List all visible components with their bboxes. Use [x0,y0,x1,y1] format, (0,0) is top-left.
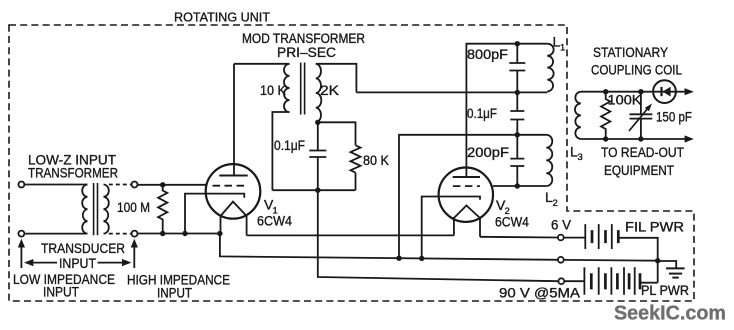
V1 grid (dashed) [213,185,247,187]
V1 plate bar [219,175,247,177]
svg-text:PRI–SEC: PRI–SEC [277,45,336,60]
capacitor C3 0.1uF [510,93,524,136]
svg-text:6CW4: 6CW4 [495,214,529,230]
svg-text:200pF: 200pF [467,145,509,160]
node L1 bottom junction [515,90,520,95]
arrow to readout top [685,88,694,95]
node B+ junction [315,188,320,193]
wire 80K bottom [355,173,357,191]
battery B1 FIL plates short [592,230,618,243]
capacitor C4 200pF [510,135,524,186]
svg-text:1: 1 [560,43,565,54]
battery B1 FIL plates long [585,224,612,249]
wire B+ node tie [272,189,355,191]
V2 heater [454,206,480,219]
arrow low impedance input [20,246,22,268]
transformer T1 secondary winding [104,185,109,234]
svg-text:100K: 100K [608,93,642,108]
svg-text:COUPLING COIL: COUPLING COIL [591,63,682,78]
transformer T1 primary winding [82,185,87,234]
wire ground rail [220,234,558,260]
battery B2 PL plates short [591,273,640,289]
transformer T1 core [94,183,98,235]
wire tank rail 2 [399,135,546,258]
V2 heater left lead [453,217,455,236]
wire 6V rail [480,236,558,239]
V2 cathode and lead [422,197,480,259]
svg-text:6 V: 6 V [551,217,572,233]
node 150pF bottom [638,136,643,141]
V2 heater right lead [479,217,481,237]
svg-text:2K: 2K [320,82,340,98]
svg-text:SeekIC.com: SeekIC.com [614,302,726,325]
wire dashed link top [109,184,132,186]
node 2K bottom [315,120,320,125]
wire input top [24,184,87,186]
inductor L1 [547,44,553,92]
svg-text:TRANSFORMER: TRANSFORMER [28,165,118,181]
svg-text:INPUT: INPUT [43,284,79,300]
arrow to readout bottom [685,135,694,142]
svg-text:ROTATING UNIT: ROTATING UNIT [174,10,270,25]
resistor R2 80K [351,145,361,172]
wire 2K bottom to 80K top [318,122,356,145]
terminal common [558,257,564,263]
terminal high impedance bottom [132,231,138,237]
wire heater rail [247,234,454,236]
node 100K top [603,89,608,94]
wire coupling top rail [581,91,686,93]
svg-text:90 V @5MA: 90 V @5MA [499,285,581,301]
svg-text:0.1μF: 0.1μF [274,138,305,153]
node gnd riser junction [396,256,401,261]
svg-text:MOD TRANSFORMER: MOD TRANSFORMER [242,31,365,46]
transformer T2 primary winding 10K [284,64,290,112]
svg-text:6CW4: 6CW4 [257,213,292,229]
node cathode tie [182,231,187,236]
svg-text:2: 2 [553,198,558,209]
tube V2 envelope [439,168,493,222]
V1 heater right lead [246,215,248,235]
wire 6V to battery [564,237,586,239]
svg-text:100 M: 100 M [117,199,150,215]
V1 plate lead [233,64,235,176]
node 200pF bottom [515,183,520,188]
node 100K bottom [603,136,608,141]
resistor R1 100M [158,185,167,234]
arrow input right [98,262,123,264]
svg-text:INPUT: INPUT [157,285,192,301]
svg-text:0.1μF: 0.1μF [467,106,497,121]
V2 grid (dashed) [453,185,480,187]
node 100M bottom [160,231,165,236]
node 150pF top [638,89,643,94]
wire ground rail input [138,233,220,235]
node grid rail junction [160,182,165,187]
wire common rail [564,259,658,262]
wire V1 plate to primary [234,63,290,65]
transformer T2 secondary winding 2K [316,64,322,123]
svg-text:INPUT: INPUT [59,255,96,271]
svg-text:STATIONARY: STATIONARY [593,45,668,60]
wire 90V to battery [564,280,584,282]
node cathode riser junction [419,256,424,261]
V1 cathode and lead [185,194,244,234]
terminal low-Z input bottom [18,231,24,237]
ground symbol [658,261,677,268]
capacitor C5 150pF variable [630,92,653,139]
wire V2 plate rail [466,44,547,177]
wire tank mid rail [356,91,547,93]
diode CR1 symbol [660,87,662,96]
svg-text:80 K: 80 K [363,152,390,168]
wire PL return [640,282,658,284]
inductor L3 [575,92,581,139]
terminal high impedance top [132,182,138,188]
svg-text:PL PWR: PL PWR [641,283,689,298]
tube V1 envelope [206,164,261,219]
V1 heater left lead [220,215,222,234]
diode CR1 envelope [653,80,676,103]
terminal 90V [558,278,564,284]
transformer T2 core [301,63,305,115]
V2 plate bar [453,176,480,178]
svg-text:FIL PWR: FIL PWR [625,220,684,235]
svg-text:800pF: 800pF [467,47,508,62]
wire coupling bottom rail [581,138,686,140]
node heater tie [217,231,222,236]
wire secondary top [316,64,357,93]
arrow variable cap [629,108,649,132]
wire V2 grid rail [493,185,546,187]
node 800pF top [515,41,520,46]
svg-text:10 K: 10 K [260,82,287,98]
rotating unit dashed boundary [9,25,694,301]
wire grid rail V1 [138,184,207,186]
resistor R3 100K [601,92,610,139]
battery B2 PL plates long [584,267,634,294]
arrow input left [34,262,58,264]
capacitor C2 800pF [509,44,525,93]
svg-text:TO READ-OUT: TO READ-OUT [601,145,684,160]
wire dashed link bottom [109,233,132,235]
wire FIL return [618,238,657,283]
svg-text:TRANSDUCER: TRANSDUCER [41,240,125,256]
V1 heater [221,202,247,216]
inductor L2 [546,135,552,186]
wire 10K bottom to B+ node [272,112,289,190]
wire B+ to 90V terminal [318,190,559,281]
svg-text:150 pF: 150 pF [656,110,692,125]
terminal 6V [558,235,564,241]
arrow high impedance input [133,246,135,268]
terminal low-Z input top [18,182,24,188]
node 200pF top [515,132,520,137]
svg-text:3: 3 [578,152,583,163]
capacitor C1 0.1uF [309,122,326,190]
node power junction [655,258,660,263]
svg-text:EQUIPMENT: EQUIPMENT [604,163,674,178]
wire input bottom [24,233,87,235]
